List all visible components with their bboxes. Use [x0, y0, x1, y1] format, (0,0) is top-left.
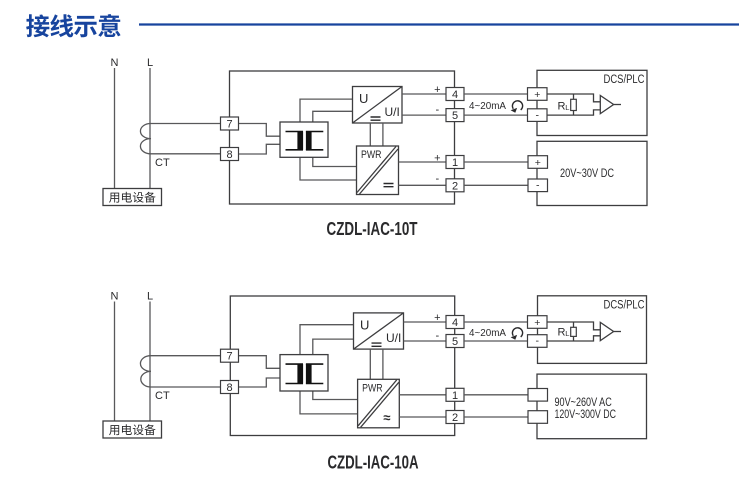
svg-text:1: 1 [452, 157, 458, 169]
wire transformer to PWR inner (bottom) [313, 391, 358, 400]
svg-text:-: - [435, 104, 439, 116]
wire transformer to PWR outer (top) [300, 157, 357, 180]
wire transformer to U/I bottom (bottom) [313, 339, 354, 355]
svg-text:-: - [435, 330, 439, 342]
DCS terminal + (bottom) [528, 316, 548, 329]
svg-text:4~20mA: 4~20mA [469, 327, 506, 339]
CT current transformer coil (bottom) [140, 356, 221, 387]
DCS/PLC box (bottom) [538, 296, 647, 364]
terminal 2 (top) [446, 179, 464, 193]
wire transformer to U/I top (top) [300, 99, 353, 122]
wire terminal1 to supply (bottom) [464, 394, 528, 396]
svg-text:N: N [111, 57, 119, 69]
page title 接线示意 [26, 14, 120, 37]
terminal 5 (top) [446, 109, 464, 123]
wire DCS + rail (top) [547, 94, 600, 102]
load resistor RL (bottom) [558, 322, 577, 341]
svg-text:U/I: U/I [385, 105, 400, 119]
wire PWR to terminal2 (top) [399, 184, 447, 186]
svg-text:5: 5 [452, 336, 458, 348]
svg-text:2: 2 [452, 180, 458, 192]
terminal 7 (bottom) [221, 349, 239, 363]
svg-text:+: + [534, 89, 540, 101]
wire PWR to terminal2 (bottom) [399, 416, 446, 418]
svg-text:CT: CT [155, 157, 170, 169]
supply terminal 1 (bottom) [528, 389, 548, 402]
svg-text:+: + [434, 312, 440, 324]
wire terminal2 to supply (bottom) [464, 416, 528, 418]
consumer device box 用电设备 (bottom) [103, 421, 162, 438]
svg-text:PWR: PWR [362, 382, 383, 394]
wire U/I to PWR link 2 (bottom) [382, 349, 384, 379]
wire terminal2 to supply (top) [464, 184, 528, 186]
svg-text:CT: CT [155, 390, 170, 402]
wire N line (top) [114, 68, 116, 189]
wire DCS - rail (bottom) [547, 336, 600, 341]
consumer device box 用电设备 (top) [103, 189, 162, 206]
wire terminal1 to supply (top) [464, 161, 528, 163]
supply terminal 2 (bottom) [528, 411, 548, 424]
loop direction arrow (bottom) [512, 328, 522, 337]
svg-text:L: L [147, 291, 153, 303]
wire PWR to terminal1 (top) [399, 161, 447, 163]
svg-text:7: 7 [226, 119, 232, 131]
power supply box (bottom) [537, 374, 647, 439]
svg-text:20V~30V DC: 20V~30V DC [560, 168, 614, 180]
wire terminal5 to DCS - (top) [464, 114, 528, 116]
svg-text:90V~260V AC: 90V~260V AC [555, 397, 612, 409]
wire transformer to U/I top (bottom) [300, 325, 354, 355]
svg-text:8: 8 [226, 149, 232, 161]
wire U/I to PWR link 1 (bottom) [369, 349, 371, 379]
supply terminal 2 (top) [528, 179, 548, 192]
wire terminal5 to DCS - (bottom) [464, 340, 528, 342]
wire terminal7 to transformer (bottom) [239, 356, 281, 369]
wire terminal8 to transformer (top) [239, 144, 281, 154]
power module PWR (bottom) [358, 379, 400, 428]
svg-text:4~20mA: 4~20mA [469, 100, 506, 112]
DCS terminal + (top) [528, 88, 548, 101]
terminal 1 (top) [446, 156, 464, 170]
terminal 7 (top) [221, 117, 239, 131]
wire U/I to terminal5 (bottom) [404, 340, 447, 342]
input amplifier (top) [600, 96, 621, 114]
svg-text:+: + [534, 317, 540, 329]
isolation transformer T1 (bottom) [280, 355, 328, 391]
svg-text:8: 8 [226, 382, 232, 394]
svg-text:-: - [536, 180, 540, 192]
power module PWR (top) [357, 146, 399, 195]
svg-text:120V~300V DC: 120V~300V DC [555, 409, 617, 421]
svg-text:4: 4 [452, 89, 458, 101]
transmitter outer box (bottom) [230, 296, 454, 436]
svg-text:DCS/PLC: DCS/PLC [604, 300, 645, 312]
svg-text:≈: ≈ [383, 410, 390, 425]
isolation transformer T1 (top) [280, 122, 328, 157]
DCS terminal - (bottom) [528, 335, 548, 348]
svg-text:+: + [535, 157, 541, 169]
svg-text:-: - [435, 173, 439, 185]
terminal 4 (top) [446, 88, 464, 102]
loop direction arrow (top) [512, 101, 522, 110]
wire DCS + rail (bottom) [547, 322, 600, 330]
U/I converter U1 (bottom) [354, 313, 404, 349]
DCS/PLC box (top) [537, 70, 647, 135]
wire U/I to terminal4 (top) [402, 93, 446, 95]
svg-text:L: L [565, 103, 569, 112]
svg-text:-: - [536, 335, 540, 347]
svg-text:U: U [360, 317, 369, 332]
svg-text:-: - [536, 109, 540, 121]
svg-text:+: + [434, 153, 440, 165]
svg-text:2: 2 [452, 412, 458, 424]
wire terminal7 to transformer (top) [239, 124, 281, 137]
wire U/I to terminal4 (bottom) [404, 321, 447, 323]
wire L line (bottom) [149, 302, 151, 422]
svg-text:5: 5 [452, 110, 458, 122]
svg-text:+: + [434, 84, 440, 96]
svg-text:4: 4 [452, 317, 458, 329]
svg-text:CZDL-IAC-10A: CZDL-IAC-10A [328, 452, 419, 473]
supply terminal 1 (top) [528, 156, 548, 169]
svg-text:U/I: U/I [386, 331, 401, 345]
terminal 8 (top) [221, 148, 239, 162]
wire L line (top) [149, 68, 151, 189]
wire DCS - rail (top) [547, 110, 600, 115]
wire PWR to terminal1 (bottom) [399, 394, 446, 396]
power supply box (top) [537, 141, 647, 205]
DCS terminal - (top) [528, 109, 548, 122]
U/I converter U1 (top) [353, 87, 403, 124]
wire U/I to terminal5 (top) [402, 114, 446, 116]
svg-text:L: L [147, 57, 153, 69]
title rule line [139, 23, 739, 25]
wire transformer to PWR inner (top) [313, 157, 357, 166]
wire U/I to PWR link 2 (top) [382, 123, 384, 146]
wire terminal4 to DCS + (bottom) [464, 321, 528, 323]
svg-text:PWR: PWR [361, 149, 382, 161]
terminal 2 (bottom) [446, 411, 464, 425]
input amplifier (bottom) [600, 322, 621, 340]
svg-text:N: N [111, 291, 119, 303]
load resistor RL (top) [558, 94, 577, 115]
wire terminal8 to transformer (bottom) [239, 378, 281, 387]
svg-text:7: 7 [226, 351, 232, 363]
wire N line (bottom) [114, 302, 116, 422]
svg-text:U: U [359, 91, 368, 106]
terminal 8 (bottom) [221, 381, 239, 395]
wire terminal4 to DCS + (top) [464, 93, 528, 95]
wire transformer to U/I bottom (top) [313, 111, 353, 122]
svg-text:CZDL-IAC-10T: CZDL-IAC-10T [327, 218, 419, 239]
svg-text:L: L [565, 329, 569, 338]
svg-text:1: 1 [452, 390, 458, 402]
wire transformer to PWR outer (bottom) [300, 391, 358, 414]
terminal 1 (bottom) [446, 388, 464, 402]
wire U/I to PWR link 1 (top) [369, 123, 371, 146]
CT current transformer coil (top) [140, 123, 220, 153]
transmitter outer box (top) [230, 71, 455, 204]
terminal 4 (bottom) [446, 316, 464, 330]
terminal 5 (bottom) [446, 335, 464, 349]
svg-text:DCS/PLC: DCS/PLC [604, 74, 645, 86]
